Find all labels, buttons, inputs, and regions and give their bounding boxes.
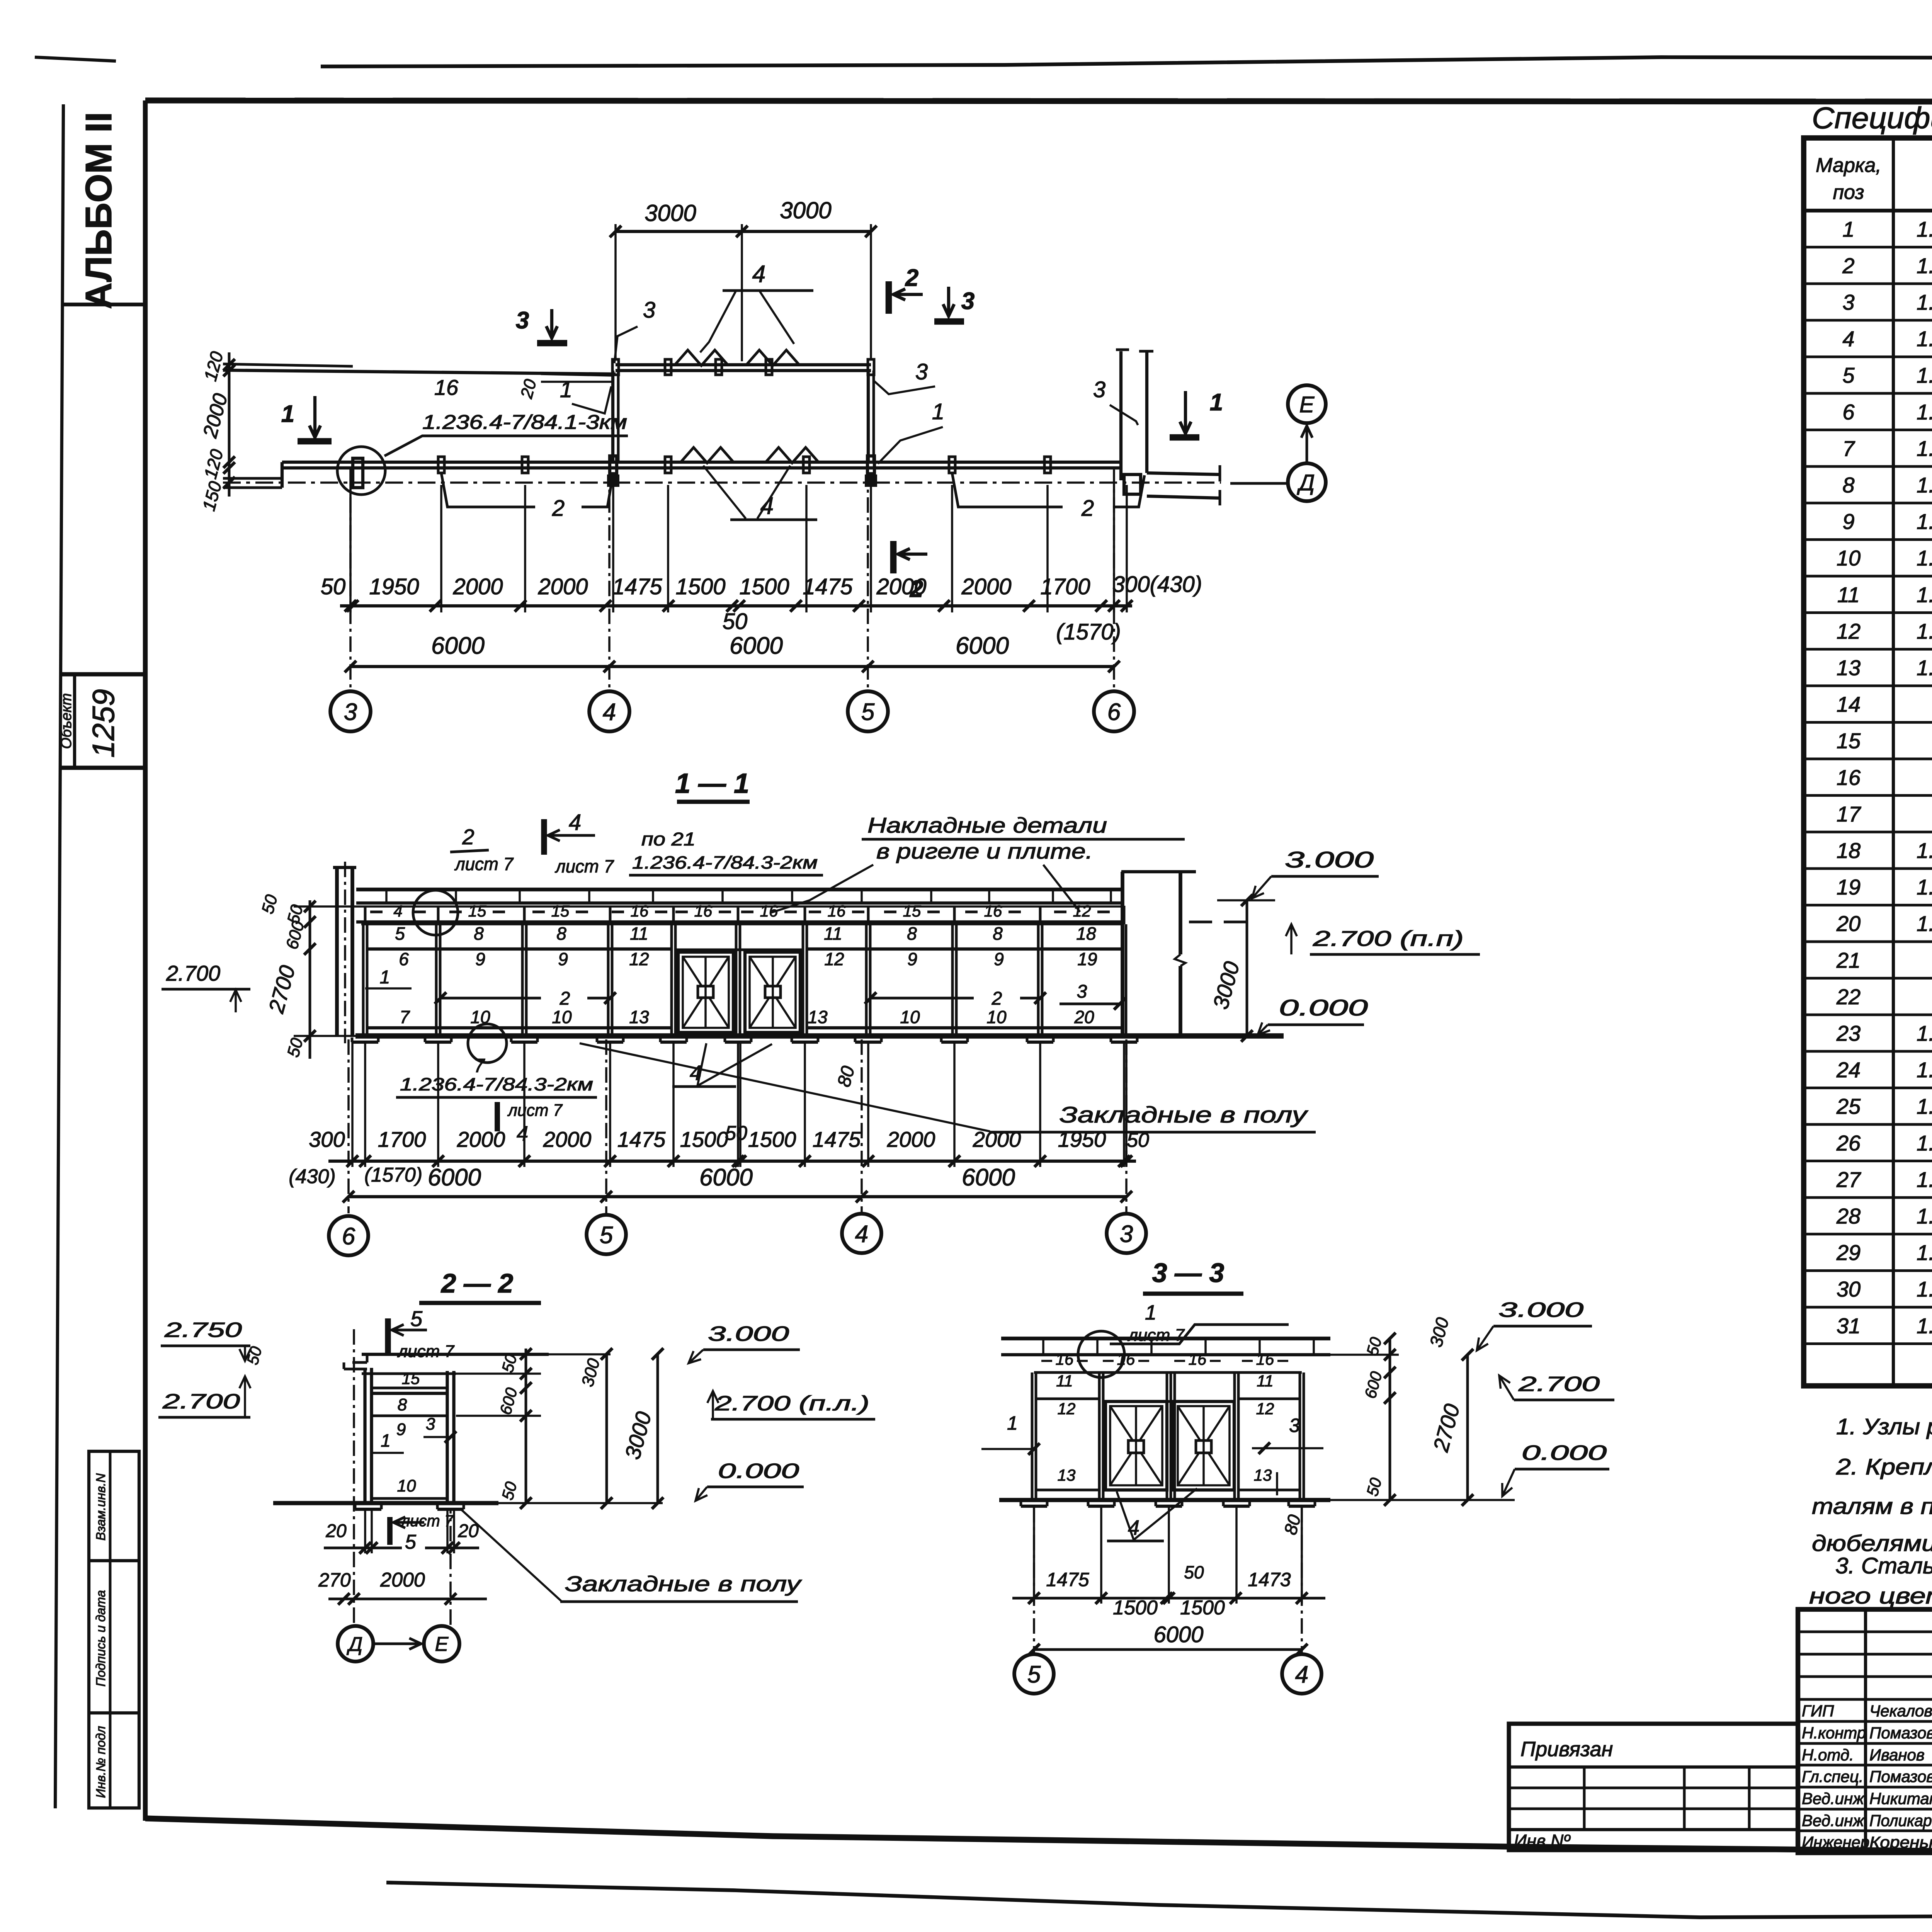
svg-text:1.236.4-7/84: 1.236.4-7/84 xyxy=(1917,473,1932,497)
section 2-2: bottom dims 270/2000 xyxy=(328,1598,487,1600)
svg-text:12: 12 xyxy=(824,949,844,969)
svg-text:поз: поз xyxy=(1833,181,1864,204)
section 1-1 axis circle 5 xyxy=(587,1215,626,1254)
svg-text:2.700 (п.л.): 2.700 (п.л.) xyxy=(714,1392,869,1415)
svg-text:10: 10 xyxy=(900,1007,920,1027)
svg-text:1.236.4-7/84: 1.236.4-7/84 xyxy=(1917,217,1932,241)
svg-text:2000: 2000 xyxy=(961,574,1011,599)
section 3-3: floor line xyxy=(999,1498,1330,1502)
section 1-1: right 3000 dim xyxy=(1246,900,1248,1036)
svg-text:10: 10 xyxy=(397,1476,416,1495)
plan: axis D dash-dot line xyxy=(223,481,1221,484)
svg-text:9: 9 xyxy=(907,949,917,969)
svg-text:2 — 2: 2 — 2 xyxy=(440,1268,514,1298)
svg-text:Накладные детали: Накладные детали xyxy=(867,813,1107,837)
svg-text:Вед.инж: Вед.инж xyxy=(1802,1789,1865,1808)
svg-text:1 — 1: 1 — 1 xyxy=(675,768,749,799)
plan: top dimension line 3000+3000 xyxy=(616,230,871,233)
svg-text:26: 26 xyxy=(1836,1131,1861,1155)
svg-text:2.700: 2.700 xyxy=(166,961,220,985)
svg-text:3: 3 xyxy=(1842,290,1854,315)
svg-text:1500: 1500 xyxy=(680,1127,728,1151)
section 2-2: axis dash-dot xyxy=(353,1329,355,1625)
svg-text:6000: 6000 xyxy=(428,1164,481,1191)
svg-text:лист 7: лист 7 xyxy=(1127,1326,1185,1345)
svg-text:17: 17 xyxy=(1837,802,1861,826)
plan axis circle 6 xyxy=(1094,691,1134,731)
svg-text:Гл.спец.: Гл.спец. xyxy=(1802,1767,1864,1786)
svg-text:3.000: 3.000 xyxy=(1498,1298,1583,1321)
section 1-1: door leaf right xyxy=(745,952,800,1032)
svg-text:талям в полу, вверху к накладн: талям в полу, вверху к накладным деталям… xyxy=(1812,1494,1932,1519)
svg-text:15: 15 xyxy=(402,1369,420,1388)
plan: upper-left wall line xyxy=(223,364,353,366)
section 3-3: center double post xyxy=(1173,1372,1176,1500)
svg-text:20: 20 xyxy=(1836,912,1861,936)
svg-text:5: 5 xyxy=(861,699,875,725)
plan: left vertical dimension line xyxy=(228,352,231,497)
section 1-1: floor line xyxy=(355,1033,1284,1039)
section 3-3 axis circle 4 xyxy=(1282,1654,1321,1694)
plan: bracket label 2 right xyxy=(952,473,1063,507)
section 2-2: base plates xyxy=(355,1508,381,1511)
svg-text:1.236.4-7/84: 1.236.4-7/84 xyxy=(1917,656,1932,680)
section 3-3: slab band xyxy=(1001,1337,1330,1340)
svg-text:1500: 1500 xyxy=(1180,1597,1225,1619)
svg-text:2000: 2000 xyxy=(457,1127,505,1151)
scanned page top edge xyxy=(321,49,1932,66)
svg-text:13: 13 xyxy=(1837,656,1861,680)
svg-text:1.236.4-7/84: 1.236.4-7/84 xyxy=(1917,1131,1932,1155)
svg-text:2000: 2000 xyxy=(380,1569,425,1591)
section 2-2: arrow D to E xyxy=(374,1643,421,1645)
section 1-1 axis circle 4 xyxy=(842,1214,881,1253)
svg-text:лист 7: лист 7 xyxy=(400,1512,454,1530)
svg-text:9: 9 xyxy=(396,1420,406,1439)
svg-text:Инв.№ подл: Инв.№ подл xyxy=(94,1726,108,1798)
svg-text:2: 2 xyxy=(552,496,565,521)
plan: axis extension lines xyxy=(349,469,352,691)
svg-text:1.236.4-7/84: 1.236.4-7/84 xyxy=(1917,1277,1932,1301)
plan: glazing zigzag symbols lower wall xyxy=(680,447,734,463)
svg-text:1475: 1475 xyxy=(617,1127,666,1151)
svg-text:2000: 2000 xyxy=(887,1127,935,1151)
svg-text:4: 4 xyxy=(1842,327,1854,351)
plan: section marks 2 and 3 top right xyxy=(886,281,892,314)
svg-text:29: 29 xyxy=(1836,1240,1861,1265)
svg-text:Е: Е xyxy=(1299,392,1315,417)
svg-text:3: 3 xyxy=(1120,1221,1133,1247)
svg-text:2: 2 xyxy=(1081,496,1094,521)
plan: wall stub right of pylon xyxy=(1147,473,1220,474)
svg-text:1475: 1475 xyxy=(1046,1569,1089,1590)
svg-text:27: 27 xyxy=(1836,1167,1861,1192)
section 1-1: axis extensions to circles xyxy=(347,1039,350,1213)
section 1-1: 6000 dimension line xyxy=(349,1195,1126,1198)
svg-text:3: 3 xyxy=(1289,1415,1300,1436)
album label box xyxy=(63,303,145,306)
svg-text:0.000: 0.000 xyxy=(718,1459,799,1483)
section 2-2: slab and cornice cap xyxy=(362,1353,549,1356)
svg-text:50: 50 xyxy=(1184,1562,1204,1582)
svg-text:9: 9 xyxy=(1842,509,1854,534)
svg-text:8: 8 xyxy=(398,1395,407,1414)
svg-text:10: 10 xyxy=(986,1007,1007,1027)
svg-text:3: 3 xyxy=(643,298,655,323)
axis circle D xyxy=(1288,463,1326,501)
signature table xyxy=(1798,1609,1932,1853)
svg-text:дюбелями к конструкциям.: дюбелями к конструкциям. xyxy=(1812,1531,1932,1556)
svg-text:2000: 2000 xyxy=(973,1127,1021,1151)
plan: recessed wall between axes 4-5 xyxy=(616,363,871,366)
svg-text:АЛЬБОМ II: АЛЬБОМ II xyxy=(78,112,119,310)
svg-text:1.236.4-7/84: 1.236.4-7/84 xyxy=(1917,1167,1932,1192)
svg-text:2000: 2000 xyxy=(537,574,588,599)
section 3-3: door leaf left xyxy=(1105,1401,1167,1490)
object number box xyxy=(60,672,145,676)
plan: 20 dim near axis 4 xyxy=(541,374,613,376)
svg-text:12: 12 xyxy=(629,949,649,969)
svg-text:8: 8 xyxy=(556,923,566,944)
svg-text:1.236.4-7/84: 1.236.4-7/84 xyxy=(1917,509,1932,534)
svg-text:16: 16 xyxy=(1837,765,1861,789)
svg-text:1475: 1475 xyxy=(612,574,662,599)
svg-text:Д: Д xyxy=(1297,470,1315,495)
svg-text:в ригеле и плите.: в ригеле и плите. xyxy=(876,839,1093,863)
svg-text:25: 25 xyxy=(1836,1094,1861,1119)
svg-text:15: 15 xyxy=(1837,729,1861,753)
svg-text:Объект: Объект xyxy=(58,693,75,749)
svg-text:ного цвета за 2 раза.: ного цвета за 2 раза. xyxy=(1809,1583,1932,1609)
svg-text:1.236.4-7/84: 1.236.4-7/84 xyxy=(1917,912,1932,936)
section 3-3: mullions xyxy=(1031,1372,1034,1500)
svg-text:Инв.Nº: Инв.Nº xyxy=(1514,1831,1571,1851)
arrow from D to E xyxy=(1306,426,1308,463)
svg-text:6000: 6000 xyxy=(956,633,1009,659)
svg-text:Н.контр: Н.контр xyxy=(1802,1724,1866,1742)
svg-text:4: 4 xyxy=(393,902,402,920)
svg-text:8: 8 xyxy=(907,923,917,944)
svg-text:лист 7: лист 7 xyxy=(397,1342,455,1361)
svg-text:0.000: 0.000 xyxy=(1279,995,1368,1020)
section 1-1: door leaf left xyxy=(678,952,733,1032)
svg-text:1950: 1950 xyxy=(1058,1127,1106,1151)
section 1-1: top rail strip xyxy=(356,905,1122,908)
svg-text:2: 2 xyxy=(462,825,474,849)
section 1-1: detail circle bottom xyxy=(468,1024,507,1063)
plan: bottom detail dimension line xyxy=(340,604,1132,607)
svg-text:1.236.4-7/84: 1.236.4-7/84 xyxy=(1917,619,1932,643)
plan: pylon at axis 6 xyxy=(1119,351,1122,480)
svg-text:1: 1 xyxy=(1145,1301,1156,1324)
section 3-3: 6000 dim xyxy=(1034,1648,1302,1651)
plan: section mark 2 bottom xyxy=(890,541,897,573)
svg-text:3: 3 xyxy=(344,699,357,725)
svg-text:10: 10 xyxy=(1837,546,1861,570)
svg-text:5: 5 xyxy=(395,923,405,944)
svg-text:15: 15 xyxy=(903,902,921,920)
plan axis circle 4 xyxy=(589,691,629,731)
section 1-1: detail circle top xyxy=(413,890,458,935)
svg-text:1500: 1500 xyxy=(1113,1597,1158,1619)
svg-text:300: 300 xyxy=(309,1127,345,1151)
svg-text:10: 10 xyxy=(552,1007,572,1027)
section 3-3 axis circle 5 xyxy=(1014,1654,1054,1694)
svg-text:4: 4 xyxy=(517,1122,528,1145)
svg-text:Д: Д xyxy=(347,1633,363,1656)
svg-text:1.236.4-7/84: 1.236.4-7/84 xyxy=(1917,253,1932,278)
section 2-2: right inner dims xyxy=(525,1349,527,1503)
svg-text:18: 18 xyxy=(1076,923,1096,944)
svg-text:1.236.4-7/84: 1.236.4-7/84 xyxy=(1917,1058,1932,1082)
plan: 6000 dimension line xyxy=(350,665,1114,668)
section 1-1: base plates xyxy=(352,1041,378,1044)
svg-text:11: 11 xyxy=(1056,1372,1073,1390)
svg-text:по 21: по 21 xyxy=(641,829,696,850)
svg-text:1500: 1500 xyxy=(748,1127,796,1151)
svg-text:6000: 6000 xyxy=(431,633,485,659)
svg-text:Коренькова: Коренькова xyxy=(1869,1833,1932,1851)
svg-text:6000: 6000 xyxy=(1153,1622,1203,1647)
svg-text:19: 19 xyxy=(1077,949,1097,969)
svg-text:(430): (430) xyxy=(289,1165,335,1188)
svg-text:1: 1 xyxy=(380,967,390,988)
svg-text:3: 3 xyxy=(1077,981,1087,1002)
plan: posts on lower wall xyxy=(438,457,444,473)
section 2-2: right outer dims xyxy=(605,1354,608,1503)
svg-text:Привязан: Привязан xyxy=(1520,1738,1613,1761)
left margin strip xyxy=(55,104,63,1808)
section 1-1: left pier xyxy=(335,867,339,1036)
svg-text:лист 7: лист 7 xyxy=(507,1101,563,1120)
svg-text:2.700 (п.п): 2.700 (п.п) xyxy=(1313,926,1464,951)
svg-text:(1570): (1570) xyxy=(1056,619,1121,645)
svg-text:1: 1 xyxy=(1007,1412,1018,1434)
section 1-1: right pier xyxy=(1121,872,1124,1036)
section 2-2: list 7 mark top xyxy=(385,1318,391,1353)
section 3-3: door leaf right xyxy=(1173,1401,1234,1490)
svg-text:16: 16 xyxy=(828,902,846,920)
svg-text:1.236.4-7/84: 1.236.4-7/84 xyxy=(1917,582,1932,607)
svg-text:13: 13 xyxy=(808,1007,828,1027)
svg-text:1.236.4-7/84: 1.236.4-7/84 xyxy=(1917,436,1932,461)
svg-text:Спецификация к схеме расположе: Спецификация к схеме расположения витраж… xyxy=(1812,101,1932,135)
svg-text:270: 270 xyxy=(318,1569,351,1591)
section 1-1: bottom dimension line xyxy=(328,1160,1136,1163)
svg-text:15: 15 xyxy=(551,902,570,920)
svg-text:5: 5 xyxy=(410,1306,423,1331)
svg-text:4: 4 xyxy=(569,810,581,835)
section 1-1 axis circle 6 xyxy=(329,1216,368,1255)
svg-text:1.236.4-7/84: 1.236.4-7/84 xyxy=(1917,363,1932,388)
svg-text:5: 5 xyxy=(1027,1661,1041,1688)
svg-text:5: 5 xyxy=(405,1531,417,1553)
svg-text:2: 2 xyxy=(992,988,1002,1009)
svg-text:7: 7 xyxy=(474,1055,485,1077)
svg-text:Чекалов: Чекалов xyxy=(1869,1702,1932,1720)
svg-text:3.000: 3.000 xyxy=(708,1322,789,1345)
svg-text:11: 11 xyxy=(824,923,842,944)
svg-text:2: 2 xyxy=(905,265,918,291)
plan: lower wall line (vitrage along axis D) xyxy=(282,461,1122,464)
svg-text:1.236.4-7/84: 1.236.4-7/84 xyxy=(1917,1313,1932,1338)
section 3-3: detail circle xyxy=(1078,1331,1124,1378)
svg-text:16: 16 xyxy=(1189,1350,1207,1368)
svg-text:2000: 2000 xyxy=(452,574,503,599)
svg-text:21: 21 xyxy=(1836,948,1861,972)
drawing frame xyxy=(145,100,1932,102)
svg-text:6000: 6000 xyxy=(730,633,783,659)
svg-text:1.236.4-7/84: 1.236.4-7/84 xyxy=(1917,838,1932,863)
section 2-2: mullions xyxy=(363,1368,366,1503)
svg-text:Иванов: Иванов xyxy=(1869,1746,1925,1764)
svg-text:1.236.4-7/84.3-2км: 1.236.4-7/84.3-2км xyxy=(632,852,818,872)
plan axis circle 3 xyxy=(330,691,371,731)
svg-text:ГИП: ГИП xyxy=(1802,1702,1834,1720)
svg-text:Н.отд.: Н.отд. xyxy=(1802,1746,1854,1764)
svg-text:11: 11 xyxy=(1837,582,1860,607)
svg-text:1700: 1700 xyxy=(378,1127,426,1151)
svg-text:3: 3 xyxy=(915,359,928,384)
section 2-2: bottom 20 dims xyxy=(324,1547,402,1549)
svg-text:Поликарпова: Поликарпова xyxy=(1869,1811,1932,1830)
svg-text:Закладные в полу: Закладные в полу xyxy=(565,1571,802,1596)
svg-text:50: 50 xyxy=(725,1122,747,1145)
svg-text:16: 16 xyxy=(984,902,1002,920)
svg-text:22: 22 xyxy=(1836,985,1861,1009)
svg-text:Никитана: Никитана xyxy=(1869,1789,1932,1808)
plan: glazing zigzag symbols upper wall xyxy=(674,350,728,366)
svg-text:19: 19 xyxy=(1837,875,1861,899)
svg-text:3: 3 xyxy=(1093,377,1105,402)
svg-text:4: 4 xyxy=(752,261,765,287)
svg-text:16: 16 xyxy=(1117,1350,1135,1368)
svg-text:Помазов: Помазов xyxy=(1869,1767,1932,1786)
svg-text:8: 8 xyxy=(474,923,484,944)
section 2-2: rails and panels xyxy=(372,1392,447,1395)
privyazan box xyxy=(1509,1724,1798,1850)
section 3-3: base plates xyxy=(1021,1505,1047,1508)
svg-text:лист 7: лист 7 xyxy=(454,854,514,874)
svg-text:6: 6 xyxy=(342,1223,355,1250)
plan: vertical wall jogs at axes 4 and 5 xyxy=(611,371,614,462)
svg-text:1. Узлы разработаны в серии 1.: 1. Узлы разработаны в серии 1.236.4-7/84… xyxy=(1836,1414,1932,1439)
svg-text:7: 7 xyxy=(400,1007,410,1027)
svg-text:2000: 2000 xyxy=(543,1127,592,1151)
section 3-3: bottom dims xyxy=(1012,1597,1325,1600)
svg-text:1475: 1475 xyxy=(813,1127,861,1151)
svg-text:3000: 3000 xyxy=(645,200,696,226)
section 1-1: mullions xyxy=(362,924,365,1036)
svg-text:1: 1 xyxy=(281,401,294,427)
svg-text:1: 1 xyxy=(1842,217,1854,241)
svg-text:5: 5 xyxy=(1842,363,1855,388)
svg-text:(1570): (1570) xyxy=(364,1164,422,1186)
svg-text:1.236.4-7/84: 1.236.4-7/84 xyxy=(1917,1094,1932,1119)
svg-text:1.236.4-7/84: 1.236.4-7/84 xyxy=(1917,290,1932,315)
svg-text:11: 11 xyxy=(1257,1372,1274,1390)
plan: corner detail circle xyxy=(337,447,385,495)
section 1-1: left dimension stack xyxy=(309,900,311,1059)
axis circle E xyxy=(1288,385,1326,423)
svg-text:0.000: 0.000 xyxy=(1522,1441,1607,1464)
svg-text:лист 7: лист 7 xyxy=(554,856,614,876)
svg-text:Закладные в полу: Закладные в полу xyxy=(1060,1102,1308,1128)
svg-text:16: 16 xyxy=(434,375,459,400)
section 3-3: top strip xyxy=(1034,1371,1302,1374)
svg-text:6: 6 xyxy=(1107,699,1121,725)
svg-text:4: 4 xyxy=(603,699,616,725)
plan: wall left end stub xyxy=(281,462,284,488)
svg-text:20: 20 xyxy=(1074,1007,1094,1027)
section 2-2 axis circle E xyxy=(424,1626,459,1662)
svg-text:1.236.4-7/84: 1.236.4-7/84 xyxy=(1917,327,1932,351)
svg-text:Е: Е xyxy=(435,1633,449,1656)
svg-text:12: 12 xyxy=(1837,619,1861,643)
svg-text:16: 16 xyxy=(694,902,713,920)
svg-text:11: 11 xyxy=(630,923,648,944)
svg-text:6: 6 xyxy=(1842,400,1855,424)
svg-text:13: 13 xyxy=(1254,1466,1272,1484)
svg-text:3 — 3: 3 — 3 xyxy=(1152,1258,1225,1288)
svg-text:13: 13 xyxy=(629,1007,649,1027)
svg-text:3: 3 xyxy=(426,1415,435,1434)
section 1-1: slab band with block joints xyxy=(356,888,1122,891)
svg-text:50: 50 xyxy=(1127,1129,1149,1151)
svg-text:2.700: 2.700 xyxy=(162,1390,240,1413)
svg-text:7: 7 xyxy=(1842,436,1855,461)
svg-text:2: 2 xyxy=(1842,253,1854,278)
section 1-1: horizontal rails xyxy=(367,947,672,951)
svg-text:Подпись и дата: Подпись и дата xyxy=(94,1590,108,1687)
scanned page bottom edge xyxy=(386,1883,1932,1917)
svg-text:6000: 6000 xyxy=(962,1164,1015,1191)
svg-text:2. Крепление витражей производ: 2. Крепление витражей производить внизу … xyxy=(1836,1454,1932,1480)
svg-text:1: 1 xyxy=(1210,389,1223,416)
svg-text:30: 30 xyxy=(1837,1277,1861,1301)
svg-text:1.236.4-7/84: 1.236.4-7/84 xyxy=(1917,546,1932,570)
svg-text:5: 5 xyxy=(600,1222,613,1248)
svg-text:2000: 2000 xyxy=(876,574,926,599)
svg-text:16: 16 xyxy=(631,902,649,920)
svg-text:3.000: 3.000 xyxy=(1285,847,1374,872)
svg-text:4: 4 xyxy=(1295,1661,1308,1688)
svg-text:1.236.4-7/84.3-2км: 1.236.4-7/84.3-2км xyxy=(400,1074,593,1094)
svg-text:3000: 3000 xyxy=(780,197,831,223)
svg-text:23: 23 xyxy=(1836,1021,1861,1046)
svg-text:4: 4 xyxy=(855,1221,868,1247)
svg-text:1: 1 xyxy=(932,399,944,424)
svg-text:16: 16 xyxy=(1256,1350,1274,1368)
svg-text:1700: 1700 xyxy=(1040,574,1090,599)
svg-text:31: 31 xyxy=(1837,1313,1861,1338)
svg-text:Инженер: Инженер xyxy=(1802,1833,1869,1851)
svg-text:1: 1 xyxy=(381,1430,391,1451)
svg-text:12: 12 xyxy=(1256,1400,1274,1418)
svg-text:1.236.4-7/84: 1.236.4-7/84 xyxy=(1917,400,1932,424)
section 3-3: right dim lines xyxy=(1389,1338,1391,1500)
svg-text:Марка,: Марка, xyxy=(1816,154,1881,177)
svg-text:28: 28 xyxy=(1836,1204,1861,1228)
section 2-2: floor line xyxy=(273,1501,498,1505)
svg-text:1.236.4-7/84: 1.236.4-7/84 xyxy=(1917,1204,1932,1228)
svg-text:14: 14 xyxy=(1837,692,1861,716)
svg-text:1473: 1473 xyxy=(1248,1569,1291,1590)
stamp cells (vzam.inv / podpis / inv.no) xyxy=(89,1451,139,1808)
svg-text:2.750: 2.750 xyxy=(164,1318,242,1342)
svg-text:12: 12 xyxy=(1058,1400,1076,1418)
svg-text:2: 2 xyxy=(560,988,570,1009)
